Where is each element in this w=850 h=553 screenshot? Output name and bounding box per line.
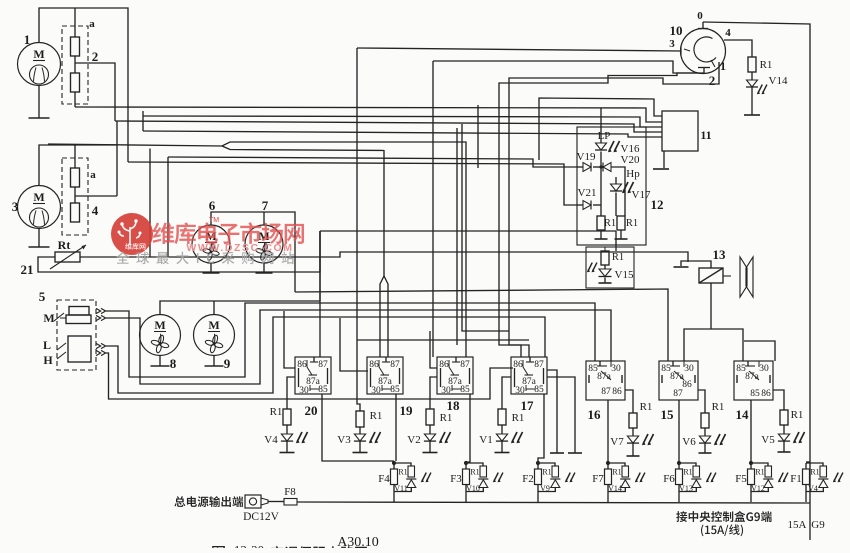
wire motor3 top feed	[39, 145, 117, 186]
relay 20	[295, 357, 331, 396]
thermistor Rt	[55, 252, 80, 262]
dashed box resistors a-2	[62, 26, 88, 104]
svg-text:2: 2	[92, 49, 99, 64]
svg-text:17: 17	[521, 398, 535, 413]
LED V15	[599, 269, 611, 277]
wire stair vertical b	[477, 105, 479, 168]
wire x143 link	[142, 111, 144, 131]
svg-text:V4: V4	[264, 434, 278, 446]
wire v19 row b	[593, 166, 603, 168]
wire relay18 out	[466, 394, 470, 462]
fuse group F1 V4	[805, 463, 807, 469]
svg-text:85: 85	[750, 389, 760, 399]
wire relay17 out	[538, 394, 544, 462]
svg-text:V9: V9	[540, 484, 550, 493]
wire bottom bus	[297, 502, 810, 503]
lightning V14	[758, 85, 762, 94]
svg-text:V20: V20	[621, 154, 640, 166]
svg-text:30: 30	[515, 386, 525, 396]
wire motor1 top feed	[39, 8, 128, 162]
wire v4 gnd	[286, 442, 288, 453]
coil13 dash	[723, 275, 731, 277]
wire term4 feed	[724, 40, 752, 57]
wire r116-v7	[632, 428, 634, 436]
wire relay18 left stub	[430, 331, 437, 368]
wire r1v15 down	[604, 265, 606, 269]
svg-text:86: 86	[369, 360, 379, 370]
svg-text:R1: R1	[612, 468, 621, 477]
wire relay20 top feed x320	[319, 231, 321, 357]
svg-text:V3: V3	[337, 434, 351, 446]
svg-text:R1: R1	[760, 59, 773, 71]
svg-text:20: 20	[305, 403, 318, 418]
wire bundle y157 to V19	[168, 157, 577, 167]
svg-text:V7: V7	[610, 436, 624, 448]
svg-text:a: a	[89, 18, 95, 30]
svg-text:V19: V19	[577, 151, 596, 163]
wire v2 gnd	[429, 442, 431, 453]
resistor R1 V15	[601, 251, 609, 265]
wire relay20 out	[322, 394, 394, 461]
wire v17 down	[615, 193, 617, 217]
wire v21 row b	[593, 204, 601, 206]
svg-text:F7: F7	[592, 473, 604, 485]
resistor R1 (V14)	[748, 57, 756, 72]
svg-text:4: 4	[725, 27, 731, 39]
cable loom horizontal	[48, 142, 466, 357]
wire r119-v3	[359, 427, 361, 434]
wire chain2 mid	[74, 187, 76, 203]
svg-text:R1: R1	[683, 468, 692, 477]
LED V6	[699, 436, 710, 443]
svg-text:V13: V13	[679, 484, 693, 493]
wire term2 top run	[433, 61, 699, 73]
wire motor67 bar	[211, 212, 295, 292]
wire relay14 r1	[773, 390, 784, 410]
wire riser x168	[167, 157, 169, 257]
ground stub b	[547, 377, 575, 453]
wire relay20 left stub	[284, 311, 295, 368]
switch5 contact L	[57, 343, 66, 350]
connector chevrons	[96, 315, 106, 320]
wire chain2 top	[74, 145, 76, 168]
svg-text:1: 1	[24, 32, 31, 47]
relay 16	[586, 361, 625, 400]
junction v19	[599, 165, 602, 168]
resistor R1 blk12 b	[617, 216, 625, 230]
svg-text:87a: 87a	[597, 372, 612, 382]
svg-text:F6: F6	[663, 473, 675, 485]
wire bundle y121	[115, 121, 662, 132]
relay 15	[659, 361, 698, 400]
fuse F8	[284, 499, 297, 506]
wire bundle y131	[143, 131, 662, 137]
connector chevrons	[96, 343, 106, 348]
wire bundle y48 to term3	[357, 48, 681, 51]
svg-text:87: 87	[534, 360, 544, 370]
wire y331 line	[462, 124, 509, 331]
wire term1 route	[509, 62, 719, 357]
wire v3 gnd	[359, 442, 361, 453]
ground V2	[423, 452, 438, 454]
svg-text:3: 3	[669, 38, 675, 50]
box V15	[586, 247, 634, 288]
resistor R1 (17)	[498, 409, 506, 425]
wire relay16 out	[607, 400, 609, 462]
svg-text:V14: V14	[769, 75, 788, 87]
svg-text:0: 0	[697, 10, 703, 22]
wire bundle y98 box11	[539, 98, 662, 160]
svg-text:R1: R1	[612, 252, 624, 263]
ground motor7	[263, 263, 265, 273]
switch5 contact M	[54, 313, 64, 321]
caption partial	[212, 546, 225, 553]
svg-text:V12: V12	[751, 484, 765, 493]
svg-text:LP: LP	[598, 130, 611, 142]
svg-text:WWW.DZSC.COM: WWW.DZSC.COM	[186, 242, 293, 254]
resistor R1 (20)	[283, 409, 291, 425]
wire term2 route	[499, 73, 704, 357]
svg-text:5: 5	[39, 289, 46, 304]
svg-text:V11: V11	[394, 484, 407, 493]
ground V6	[699, 452, 712, 454]
label 接中央控制盒G9端	[676, 511, 771, 522]
rotary switch 10	[681, 29, 726, 74]
svg-text:12-20: 12-20	[234, 543, 264, 549]
resistor a2 (upper)	[71, 168, 80, 187]
wire Rt right y253	[80, 252, 688, 262]
ground relay13	[674, 266, 689, 268]
wire connector to f8	[268, 501, 284, 503]
svg-text:3: 3	[12, 199, 19, 214]
ground V5	[778, 451, 791, 453]
wire v5 gnd	[783, 442, 785, 453]
resistor R1 (16)	[629, 413, 637, 428]
svg-text:87: 87	[390, 360, 400, 370]
svg-text:30: 30	[611, 364, 621, 374]
svg-text:G9: G9	[811, 519, 825, 531]
terminal 2	[698, 67, 710, 69]
svg-text:13: 13	[713, 247, 727, 262]
svg-text:F8: F8	[284, 486, 296, 498]
switch 5 dashed box	[57, 300, 96, 370]
wire relay19 out	[395, 394, 397, 461]
svg-text:V21: V21	[578, 187, 597, 199]
wire riser x150	[149, 149, 151, 258]
svg-text:F5: F5	[735, 473, 747, 485]
wire route L	[106, 317, 545, 393]
ground motor9	[213, 356, 215, 367]
wire r1a feed	[600, 205, 602, 216]
wire v15 gnd wire	[604, 278, 606, 284]
svg-text:1: 1	[720, 59, 726, 73]
wire y340 line	[357, 339, 529, 341]
svg-text:R1: R1	[370, 410, 383, 422]
ground r1a	[595, 238, 608, 240]
fuse group F3 V10	[464, 461, 468, 465]
ground V14	[744, 114, 760, 116]
svg-text:V14: V14	[608, 484, 622, 493]
svg-text:11: 11	[700, 128, 711, 142]
wire bundle y163 to V21	[128, 162, 577, 205]
svg-text:87a: 87a	[745, 372, 760, 382]
svg-text:A30.10: A30.10	[337, 535, 379, 548]
LED V17	[611, 184, 622, 191]
svg-text:10: 10	[670, 23, 683, 38]
ground r1b	[615, 238, 628, 240]
diode V19	[583, 163, 591, 172]
wire motor7 stub	[263, 212, 265, 225]
svg-text:L: L	[43, 338, 51, 352]
svg-text:R1: R1	[712, 401, 725, 413]
relay 18	[437, 357, 473, 396]
svg-text:V1: V1	[479, 434, 492, 446]
switch5 lower block	[68, 336, 91, 362]
resistor R1 (18)	[426, 409, 434, 425]
wire v17 wire	[615, 177, 617, 184]
svg-text:86: 86	[612, 387, 622, 397]
wire resistor chain bottom	[74, 92, 76, 107]
svg-text:85: 85	[534, 385, 544, 395]
svg-text:M: M	[33, 190, 44, 204]
resistor a (upper)	[71, 37, 80, 56]
svg-text:V15: V15	[615, 269, 634, 281]
svg-text:R1: R1	[626, 218, 638, 229]
svg-text:85: 85	[318, 385, 328, 395]
svg-text:M: M	[208, 318, 219, 332]
ground stub a	[547, 370, 557, 453]
svg-text:4: 4	[92, 203, 99, 218]
svg-text:21: 21	[21, 262, 34, 277]
svg-text:30: 30	[441, 386, 451, 396]
control box 11	[662, 111, 698, 151]
svg-text:86: 86	[513, 360, 523, 370]
wire route M1	[106, 303, 595, 377]
svg-text:14: 14	[736, 407, 750, 422]
wire v14 gnd wire	[751, 87, 753, 115]
wire resistor chain 1	[74, 8, 76, 37]
wire v21 row	[577, 204, 583, 206]
resistor R1 (14)	[780, 410, 788, 425]
svg-text:R1: R1	[470, 468, 479, 477]
wire stair vertical a	[456, 128, 458, 345]
wire riser x117	[116, 121, 118, 196]
svg-text:H: H	[43, 353, 53, 367]
svg-text:85: 85	[390, 385, 400, 395]
wire r114-v5	[783, 425, 785, 434]
wire v19 row	[577, 166, 583, 168]
svg-text:18: 18	[447, 398, 461, 413]
wire bundle y114	[143, 116, 662, 127]
fuse group F2 V9	[536, 461, 540, 465]
block 12 box	[577, 127, 646, 245]
wire coil13 to relay15	[684, 329, 711, 361]
svg-text:86: 86	[761, 389, 771, 399]
resistor R1 (19)	[356, 411, 364, 427]
wire y231 line	[320, 230, 616, 232]
ground motor3	[38, 229, 40, 248]
svg-text:a: a	[90, 169, 96, 181]
wire y292 to relay15	[295, 289, 668, 361]
ground V4	[280, 452, 295, 454]
watermark logo disc	[111, 213, 153, 255]
wire term0 to right bus	[703, 22, 810, 540]
wire v19 row c	[611, 167, 625, 216]
LED V3	[354, 434, 365, 441]
wire v7 gnd	[632, 444, 634, 457]
svg-text:8: 8	[170, 356, 177, 371]
wire coil13 down	[710, 283, 712, 329]
wire motor9 stub	[213, 301, 215, 315]
motor M 9	[194, 315, 235, 356]
diode V21	[583, 201, 591, 210]
resistor 4 (lower)	[71, 203, 80, 222]
svg-text:TM: TM	[209, 217, 219, 224]
terminal 0	[698, 28, 708, 30]
svg-text:R1: R1	[810, 468, 819, 477]
connector DC12V	[245, 495, 261, 508]
motor M 7	[245, 225, 283, 263]
wire route H	[106, 353, 513, 399]
LED V4	[281, 434, 292, 441]
svg-text:F2: F2	[522, 473, 534, 485]
svg-text:86: 86	[439, 360, 449, 370]
LED V5	[778, 434, 789, 441]
wire LP feed	[600, 108, 602, 143]
switch5 contact H	[57, 352, 66, 359]
label 总电源输出端	[174, 496, 243, 507]
wire r118-v2	[429, 425, 431, 434]
wire r120-v4	[286, 425, 288, 434]
svg-text:R1: R1	[640, 401, 653, 413]
svg-text:M: M	[43, 311, 54, 325]
resistor R1 (15)	[701, 413, 709, 428]
wire 21 left	[38, 231, 320, 272]
wire between resistors	[74, 56, 76, 73]
ground motor6	[210, 263, 212, 273]
horn speaker	[740, 257, 753, 297]
watermark 全球最大IC采购网站	[116, 251, 294, 264]
svg-text:12: 12	[651, 197, 664, 212]
label (15A/线)	[701, 524, 743, 536]
ground motor8	[159, 356, 161, 367]
wire route M2	[106, 310, 611, 384]
wire r115-v6	[704, 428, 706, 436]
motor M 1	[18, 43, 61, 86]
wire motor89 bar	[160, 301, 320, 315]
motor M 3	[18, 186, 61, 229]
resistor 2 (lower)	[71, 73, 80, 92]
wire tap 2	[75, 63, 115, 121]
svg-text:F1: F1	[790, 473, 802, 485]
switch5 upper block	[69, 307, 89, 316]
svg-text:M: M	[33, 47, 44, 61]
watermark 维库电子市场网	[153, 222, 304, 244]
wire relay15 r1	[698, 390, 705, 413]
LED V7	[627, 436, 638, 443]
wire r1v15 wire	[604, 247, 606, 251]
svg-text:30: 30	[684, 364, 694, 374]
svg-text:87: 87	[318, 360, 328, 370]
wire relay16 r1	[625, 390, 633, 413]
wire tap 4	[75, 195, 117, 197]
relay 19	[367, 357, 403, 396]
wire v6 gnd	[704, 444, 706, 454]
svg-text:R1: R1	[542, 468, 551, 477]
svg-text:F4: F4	[378, 473, 390, 485]
svg-text:M: M	[154, 318, 165, 332]
fuse group F5 V12	[749, 461, 753, 465]
svg-text:6: 6	[209, 198, 216, 213]
svg-text:R1: R1	[512, 412, 525, 424]
svg-text:V2: V2	[407, 434, 420, 446]
svg-text:30: 30	[371, 386, 381, 396]
svg-text:85: 85	[460, 385, 470, 395]
svg-text:V6: V6	[682, 436, 696, 448]
svg-text:2: 2	[709, 73, 716, 88]
svg-text:19: 19	[400, 403, 414, 418]
fuse group F7 V14	[606, 461, 610, 465]
svg-text:Rt: Rt	[58, 238, 71, 252]
svg-text:Hp: Hp	[626, 168, 640, 180]
wire bar riser x320	[319, 231, 321, 301]
wire relay15 out	[678, 400, 680, 462]
fuse group F4 V11	[392, 461, 396, 465]
wire relay19 left stub	[340, 318, 368, 371]
svg-text:R1: R1	[398, 468, 407, 477]
connector chevrons	[96, 350, 106, 355]
wire box11 gnd wire	[663, 151, 665, 168]
ground box11	[653, 168, 669, 170]
wire bundle y107	[75, 107, 662, 122]
svg-text:F3: F3	[450, 473, 462, 485]
svg-text:V17: V17	[632, 189, 651, 201]
wire coil13 to relay14	[711, 329, 743, 361]
wire x433 term2 drop	[432, 61, 434, 357]
svg-text:30: 30	[299, 386, 309, 396]
wire coil13 left gnd	[681, 261, 711, 268]
ground motor1	[38, 86, 40, 119]
ground V3	[353, 452, 368, 454]
LED V2	[424, 434, 435, 441]
relay 17	[511, 357, 547, 396]
svg-text:86: 86	[682, 380, 692, 390]
LED LP	[596, 143, 607, 150]
wire r1a gnd	[600, 230, 602, 239]
svg-text:R1: R1	[755, 468, 764, 477]
wire relay17 87a	[502, 377, 511, 409]
svg-text:86: 86	[297, 360, 307, 370]
svg-text:87: 87	[673, 389, 683, 399]
LED V14	[747, 80, 758, 87]
svg-text:7: 7	[262, 198, 269, 213]
wire v17 feed	[600, 167, 602, 205]
dashed box resistors a-4	[62, 158, 88, 235]
svg-text:V5: V5	[761, 434, 775, 446]
wire f1 tie	[806, 461, 810, 463]
svg-text:87: 87	[601, 387, 611, 397]
svg-text:R1: R1	[791, 409, 804, 421]
relay coil 13	[699, 268, 723, 283]
svg-text:R1: R1	[440, 412, 453, 424]
svg-text:DC12V: DC12V	[243, 511, 279, 523]
svg-text:R1: R1	[270, 406, 283, 418]
resistor R1 blk12 a	[597, 216, 605, 230]
wire r1 to v14	[751, 72, 753, 80]
ground V15	[599, 282, 612, 284]
wire x357 long	[357, 48, 360, 411]
wire relay18 87a	[430, 377, 437, 409]
